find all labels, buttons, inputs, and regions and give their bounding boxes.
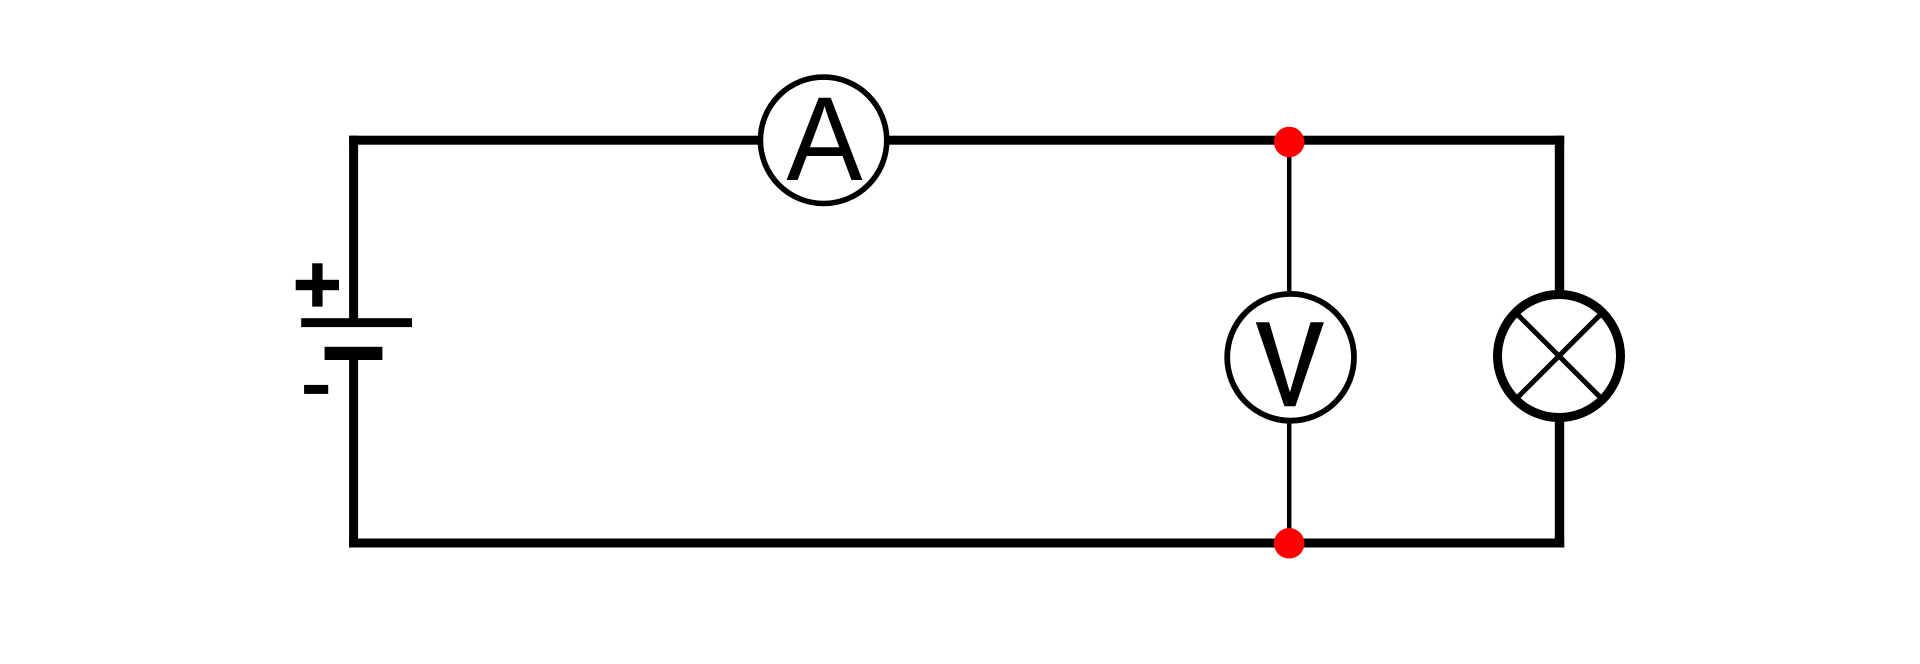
battery + polarity label — [296, 263, 339, 306]
wire: top wire (top-left corner through ammeter to top-right corner) — [349, 136, 1564, 145]
node B junction dot (bottom) — [1274, 528, 1305, 559]
lamp L1 cross stroke 1 — [1514, 311, 1604, 401]
svg-text:A: A — [786, 71, 862, 205]
lamp L1 body — [1498, 295, 1621, 418]
wire: bottom wire (bottom-right corner to bottom-left corner) — [349, 539, 1564, 548]
voltmeter V1 label "V" — [1256, 322, 1324, 406]
wire: voltmeter branch upper segment (node A down to voltmeter) — [1287, 141, 1292, 311]
battery (cell) negative plate — [325, 347, 383, 360]
battery (cell) positive plate — [301, 318, 412, 327]
wire: voltmeter branch lower segment (voltmeter down to node B) — [1287, 404, 1292, 543]
wire: battery negative lead (left side, - plate down to bottom-left corner) — [349, 358, 358, 548]
lamp L1 cross stroke 2 — [1514, 311, 1604, 401]
wire: battery positive lead (left side, + plate up to top-left corner) — [349, 136, 358, 322]
node A junction dot (top) — [1274, 127, 1305, 158]
voltmeter V1 body — [1227, 294, 1354, 421]
ammeter A1 body — [760, 77, 886, 203]
battery - polarity label — [304, 385, 328, 394]
wire: right wire (top-right corner through lamp to bottom-right corner) — [1555, 136, 1564, 548]
